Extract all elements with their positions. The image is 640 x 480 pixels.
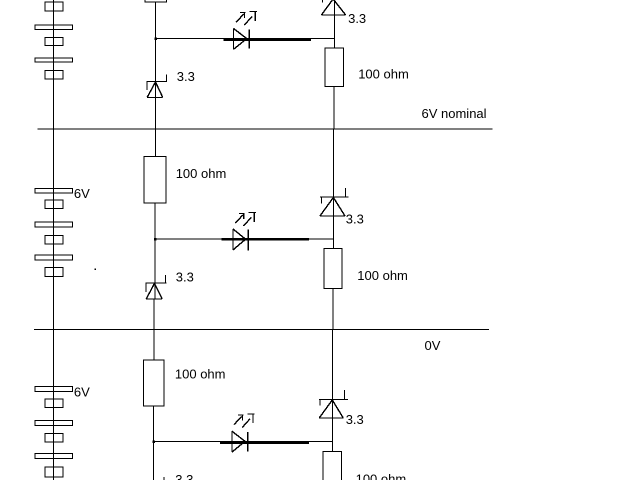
svg-text:100 ohm: 100 ohm — [175, 367, 226, 382]
svg-text:6V: 6V — [74, 186, 90, 201]
svg-text:3.3: 3.3 — [346, 412, 364, 427]
LED2 light arrows — [235, 212, 256, 226]
svg-text:6V nominal: 6V nominal — [422, 106, 487, 121]
wire: LED2 thick lead — [221, 238, 308, 241]
zener D1 3.3 (top-left) — [147, 75, 167, 98]
junction: LED3 wire to left branch — [152, 440, 155, 443]
LED3 triangle — [231, 431, 233, 452]
svg-text:100 ohm: 100 ohm — [176, 166, 227, 181]
svg-text:100 ohm: 100 ohm — [358, 67, 409, 82]
wire: battery column vertical — [53, 0, 55, 480]
wire: right branch, top section — [334, 0, 336, 48]
svg-text:3.3: 3.3 — [348, 11, 366, 26]
junction: LED1 wire to left branch — [154, 37, 157, 40]
battery BT1 (top, partial) — [35, 2, 73, 79]
bus: 6V nominal rail — [38, 128, 493, 130]
wire: right branch, below R4 to 0V bus — [332, 289, 334, 330]
resistor R4 100 ohm (middle-right) — [324, 249, 342, 289]
svg-text:6V: 6V — [74, 385, 90, 400]
wire: right branch, below R2 to 6V bus — [333, 87, 335, 130]
LED LED3 (bottom row) — [152, 414, 332, 453]
zener D2 3.3 (middle-left) — [145, 275, 166, 299]
stray mark — [95, 268, 97, 270]
LED LED2 (middle row) — [154, 212, 334, 250]
junction: LED2 wire to left branch — [154, 238, 157, 241]
wire: LED2 horizontal — [155, 238, 334, 240]
svg-text:100 ohm: 100 ohm — [357, 268, 408, 283]
LED2 triangle — [232, 229, 234, 250]
resistor R2 100 ohm (top-right) — [325, 48, 344, 87]
zener D3 3.3 (bottom-left, cut off) — [163, 477, 165, 480]
wire: LED3 horizontal — [154, 441, 333, 443]
battery BT2 (middle) 6V — [35, 189, 73, 277]
LED1 light arrows — [236, 11, 257, 25]
wire: left branch, lower middle section — [153, 299, 155, 360]
svg-text:0V: 0V — [425, 338, 441, 353]
LED1 triangle — [233, 29, 235, 50]
svg-text:3.3: 3.3 — [175, 472, 193, 480]
wire: left branch, bottom section — [153, 406, 155, 480]
svg-text:3.3: 3.3 — [176, 270, 194, 285]
svg-text:3.3: 3.3 — [346, 212, 364, 227]
LED1 cathode bar — [248, 29, 250, 48]
resistor R3 100 ohm (middle-left) — [144, 156, 166, 203]
zener D5 3.3 (middle-right) — [320, 188, 349, 216]
LED2 cathode bar — [247, 230, 249, 251]
resistor R6 100 ohm (bottom-right, cut off) — [323, 451, 341, 480]
wire: left branch, top section — [155, 2, 157, 156]
LED3 light arrows — [234, 414, 255, 428]
zener D4 3.3 (top-right, cut off) — [321, 0, 345, 15]
wire: LED3 thick lead — [220, 441, 309, 444]
svg-text:100 ohm: 100 ohm — [356, 471, 407, 480]
battery BT3 (bottom, partial) 6V — [35, 387, 73, 478]
wire: LED1 thick lead — [223, 38, 311, 41]
wire: right branch, bottom section — [332, 330, 334, 452]
wire: right branch, middle section — [333, 129, 335, 249]
zener D6 3.3 (bottom-right) — [319, 390, 348, 418]
LED3 cathode bar — [247, 432, 249, 452]
svg-text:3.3: 3.3 — [177, 69, 195, 84]
resistor R1 (top-left, bottom edge visible) — [145, 0, 166, 2]
wire: LED1 horizontal — [156, 38, 335, 40]
resistor R5 100 ohm (bottom-left) — [143, 360, 164, 406]
wire: left branch, middle section — [154, 203, 156, 299]
bus: 0V rail — [34, 329, 489, 331]
LED LED1 (top row) — [154, 11, 334, 49]
